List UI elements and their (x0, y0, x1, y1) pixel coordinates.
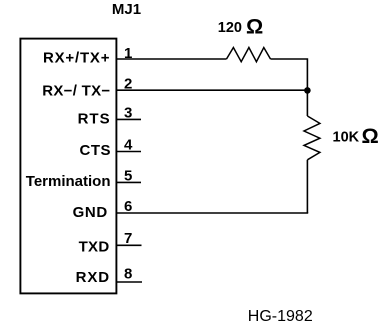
svg-text:120: 120 (218, 20, 242, 36)
svg-text:RX−/ TX−: RX−/ TX− (42, 82, 110, 99)
wire 10K resistor down to pin 6 line (306, 160, 308, 213)
pin 4 stub wire (116, 151, 142, 153)
svg-text:CTS: CTS (80, 142, 112, 159)
wire resistor to corner and down to node (271, 59, 308, 90)
svg-text:8: 8 (124, 265, 132, 282)
svg-text:Ω: Ω (362, 124, 379, 148)
wire node down to 10K resistor (306, 90, 308, 116)
svg-text:Ω: Ω (246, 15, 263, 39)
svg-text:RXD: RXD (76, 269, 110, 286)
pin 3 stub wire (116, 118, 142, 120)
pin 8 stub wire (116, 281, 143, 283)
svg-text:GND: GND (73, 204, 108, 221)
resistor 10K ohm (304, 116, 320, 160)
junction dot node (304, 87, 311, 94)
wire pin 6 to resistor bottom (116, 212, 309, 214)
svg-text:MJ1: MJ1 (112, 1, 141, 18)
connector MJ1 box (20, 39, 116, 294)
svg-text:TXD: TXD (79, 239, 110, 256)
pin 5 stub wire (116, 181, 142, 183)
wire pin 2 to node (116, 89, 308, 91)
resistor 120 ohm (227, 48, 271, 62)
svg-text:RTS: RTS (78, 111, 111, 128)
svg-text:10K: 10K (333, 130, 360, 146)
svg-text:Termination: Termination (26, 173, 111, 190)
svg-text:RX+/TX+: RX+/TX+ (43, 50, 110, 67)
svg-text:HG-1982: HG-1982 (248, 308, 313, 325)
wire pin 1 to resistor (116, 58, 227, 60)
pin 7 stub wire (116, 244, 142, 246)
